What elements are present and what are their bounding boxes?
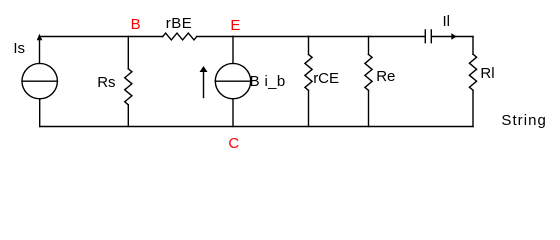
wire Rl bottom to bottom rail <box>472 90 474 126</box>
node E <box>230 18 240 33</box>
controlled current source diameter bar <box>215 80 250 82</box>
wire controlled source bottom lead <box>232 99 234 127</box>
wire Rs top lead <box>127 37 129 69</box>
arrowhead current Il <box>451 33 456 39</box>
wire rBE to node E <box>197 36 233 38</box>
wire Re bottom lead <box>368 90 370 126</box>
resistor Rs <box>125 69 132 105</box>
current source Is diameter bar <box>22 80 57 82</box>
wire bottom rail <box>40 126 473 128</box>
wire Re top to capacitor <box>369 36 425 38</box>
label rCE <box>313 71 339 86</box>
resistor Re <box>365 54 372 90</box>
label String <box>501 113 547 128</box>
wire Re top lead <box>368 37 370 55</box>
wire controlled source top lead <box>232 37 234 64</box>
label Il <box>443 14 451 29</box>
current source Is arrow head <box>37 34 43 41</box>
label Re <box>376 69 395 84</box>
label Rl <box>480 66 494 81</box>
resistor Rl <box>469 54 476 90</box>
wire Is bottom lead <box>39 99 41 127</box>
node B <box>131 17 141 32</box>
resistor rCE <box>305 54 312 90</box>
wire rCE top lead <box>308 37 310 55</box>
label rBE <box>166 16 193 31</box>
wire right corner down to Rl <box>472 37 474 55</box>
controlled source branch arrow i_b line <box>203 72 205 98</box>
node C <box>228 136 239 151</box>
wire top from Is corner to node B <box>40 36 129 38</box>
current source Is circle <box>22 63 57 98</box>
label B i_b <box>250 74 286 89</box>
controlled current source B i_b circle <box>215 63 250 98</box>
wire node B to rBE <box>128 36 163 38</box>
wire Rs bottom lead <box>127 105 129 127</box>
label Rs <box>97 75 115 90</box>
wire Is top lead <box>39 37 41 64</box>
capacitor Cl plates <box>425 30 431 43</box>
wire rCE top to Re top <box>309 36 369 38</box>
resistor rBE <box>163 33 197 40</box>
wire node E to rCE top <box>233 36 309 38</box>
controlled source arrow i_b head <box>200 66 208 72</box>
wire capacitor to right corner <box>432 36 473 38</box>
wire rCE bottom lead <box>308 90 310 126</box>
label Is <box>13 41 25 56</box>
